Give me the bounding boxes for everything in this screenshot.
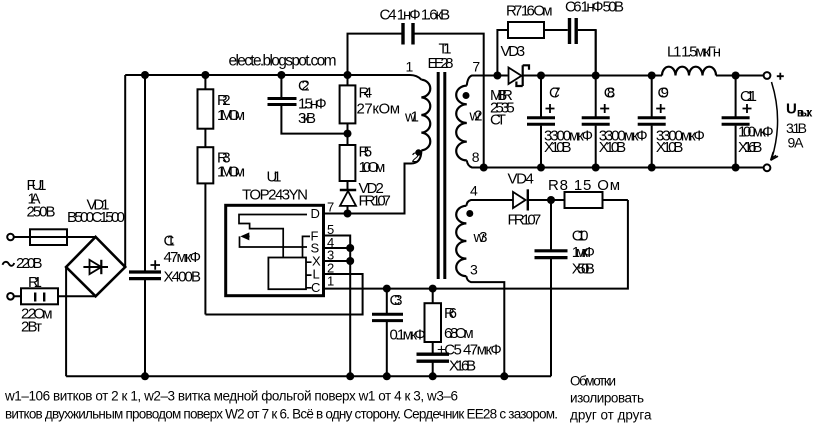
svg-text:2Вт: 2Вт [21, 319, 42, 336]
wire w2 pin8 hook and secondary bottom rail [467, 160, 764, 167]
svg-text:3: 3 [470, 262, 478, 278]
junction C4 pin8 rail [480, 164, 488, 172]
wire input fuse to bridge top corner [14, 236, 96, 238]
resistor R7 [508, 22, 544, 38]
wire R2 R3 chain and L-loop left vertical [204, 75, 206, 315]
wire C10 branch [550, 200, 552, 376]
capacitor C9 electrolytic [638, 104, 666, 124]
resistor R6 [425, 303, 442, 342]
wire primary top rail [125, 75, 421, 80]
junction C2 top rail [277, 71, 285, 79]
junction C1 top rail [141, 71, 149, 79]
svg-text:X10В: X10В [656, 139, 684, 156]
svg-text:витков двухжильным проводом по: витков двухжильным проводом поверх W2 от… [5, 407, 558, 422]
junction R4 C4 top rail [344, 71, 352, 79]
wire bridge right corner up to top rail (DC plus) [124, 75, 126, 267]
capacitor C6 [570, 18, 577, 44]
svg-text:7: 7 [472, 59, 480, 75]
svg-text:X400В: X400В [164, 269, 202, 286]
junction S pin [346, 244, 354, 252]
svg-text:U1: U1 [267, 169, 282, 186]
svg-text:C4 1нФ 1.6кВ: C4 1нФ 1.6кВ [380, 7, 451, 24]
svg-text:100мкФ: 100мкФ [738, 124, 774, 141]
svg-text:X10В: X10В [544, 139, 572, 156]
svg-text:w1–106 витков от 2 к 1, w2–3 в: w1–106 витков от 2 к 1, w2–3 витка медно… [4, 389, 458, 404]
junction C7 bottom [537, 164, 545, 172]
svg-text:VD3: VD3 [501, 43, 526, 60]
resistor R3 [198, 147, 214, 183]
junction C3 bottom rail [383, 372, 391, 380]
resistor R8 [565, 192, 603, 208]
svg-text:C6 1нФ 50В: C6 1нФ 50В [565, 0, 624, 16]
junction source vertical bottom rail [346, 372, 354, 380]
svg-text:R8 15 Ом: R8 15 Ом [548, 177, 620, 194]
wire R7 C6 snubber [497, 30, 595, 76]
svg-text:8: 8 [472, 149, 480, 165]
input terminal bottom [7, 293, 14, 300]
wire R4 R5 VD2 clamp chain [347, 75, 349, 214]
junction VD2 D node [344, 210, 352, 218]
U1 internal drain line [239, 215, 307, 258]
svg-text:X16В: X16В [738, 139, 762, 156]
wire primary bottom rail [66, 375, 551, 377]
resistor R2 [198, 89, 214, 128]
winding w3 [456, 206, 466, 276]
wire C11 stem [735, 76, 737, 168]
winding w2 polarity dot [463, 92, 470, 99]
svg-text:1: 1 [327, 274, 334, 289]
svg-text:D: D [311, 206, 320, 221]
svg-text:220В: 220В [16, 255, 43, 272]
wire R8 right end [603, 199, 628, 201]
wire U1 L pin loop to R3 bottom [205, 274, 362, 315]
junction C7 top [537, 72, 545, 80]
diode VD3 schottky MBR2535CT [509, 65, 530, 86]
svg-text:10 Ом: 10 Ом [359, 159, 386, 176]
wire C1 branch vertical [144, 75, 146, 376]
wire C8 stem [595, 30, 597, 168]
U1 internal F line [303, 236, 311, 257]
junction R4 R5 C2 node [344, 130, 352, 138]
diode VD2 [340, 190, 356, 206]
diode VD4 FR107 [513, 189, 528, 210]
svg-text:1МОм: 1МОм [217, 107, 245, 124]
svg-text:R7 16 Ом: R7 16 Ом [506, 3, 553, 20]
wire input R1 to bridge bottom corner [14, 295, 96, 297]
capacitor C5 electrolytic [417, 354, 450, 361]
wire bridge left corner down to bottom rail (DC minus) [65, 267, 67, 376]
svg-text:4: 4 [470, 183, 478, 199]
winding w2 [456, 86, 467, 161]
output terminal plus [764, 72, 771, 79]
svg-text:electe.blogspot.com: electe.blogspot.com [229, 53, 337, 70]
svg-text:250В: 250В [27, 204, 56, 221]
capacitor C1 electrolytic [129, 260, 161, 278]
svg-text:C: C [311, 280, 320, 295]
svg-text:L1 1.5мкГн: L1 1.5мкГн [667, 44, 721, 61]
svg-text:C3: C3 [390, 292, 403, 309]
svg-text:C10: C10 [572, 228, 589, 245]
output terminal minus [764, 164, 771, 171]
svg-text:6.8Ом: 6.8Ом [444, 325, 474, 342]
capacitor C4 [403, 23, 413, 45]
wire C9 stem [651, 76, 653, 168]
svg-text:9А: 9А [788, 135, 805, 151]
wire VD4 cathode to R8 [528, 199, 565, 201]
svg-text:X10В: X10В [599, 139, 627, 156]
junction w3 return bottom rail [500, 372, 508, 380]
wire w3 pin3 return [466, 276, 504, 376]
svg-text:w2: w2 [469, 108, 483, 125]
output plus sign [777, 73, 784, 80]
svg-text:X50В: X50В [572, 261, 595, 278]
junction R6 top control rail [429, 285, 437, 293]
wire w2 pin7 hook and secondary rail to VD3 anode [467, 76, 508, 86]
svg-text:EE28: EE28 [428, 55, 454, 72]
winding w1 [421, 80, 430, 151]
junction C3 top control rail [383, 285, 391, 293]
svg-text:FR107: FR107 [359, 193, 391, 210]
svg-text:47мкФ: 47мкФ [164, 249, 202, 266]
wire C3 branch [386, 289, 388, 377]
wire R6 C5 branch [432, 289, 434, 377]
svg-text:изолировать: изолировать [570, 391, 644, 406]
svg-text:C2: C2 [298, 78, 310, 95]
AC tilde symbol [3, 262, 15, 266]
svg-text:C1: C1 [164, 233, 176, 250]
wire C7 stem [540, 76, 542, 168]
wire U1 D pin to w1 pin2 [324, 150, 422, 213]
junction VD4 R8 C10 node [547, 196, 555, 204]
svg-text:CT: CT [490, 112, 506, 129]
IC U1 TOP243YN body [226, 205, 324, 295]
U1 internal controller box [268, 258, 306, 290]
junction C11 bottom [732, 164, 740, 172]
junction C9 top [648, 72, 656, 80]
capacitor C10 [535, 251, 568, 258]
resistor R4 [340, 85, 356, 123]
wire w3 pin4 to VD4 [466, 200, 513, 206]
svg-text:2: 2 [412, 149, 420, 165]
svg-text:R5: R5 [359, 144, 373, 161]
svg-text:R6: R6 [444, 305, 457, 322]
junction VD3 anode node [493, 72, 501, 80]
junction C1 bottom rail [141, 372, 149, 380]
svg-text:w1: w1 [404, 109, 419, 126]
svg-text:C11: C11 [740, 88, 757, 105]
junction C8 snubber top [592, 72, 600, 80]
svg-text:C7: C7 [549, 85, 561, 102]
wire U1 C pin control rail to R8 return [324, 200, 628, 289]
inductor L1 [662, 67, 716, 76]
svg-text:1: 1 [406, 59, 414, 75]
capacitor C8 electrolytic [582, 104, 610, 124]
input terminal top [7, 234, 14, 241]
resistor R1 [21, 288, 58, 304]
resistor R5 [340, 145, 356, 181]
svg-text:R4: R4 [359, 85, 373, 102]
transformer T1 core [438, 72, 445, 279]
junction R2 top rail [201, 71, 209, 79]
svg-text:+C5 47мкФ: +C5 47мкФ [437, 342, 502, 359]
wire VD3 cathode to output plus terminal [523, 75, 764, 77]
capacitor C2 [268, 99, 297, 105]
svg-text:1мкФ: 1мкФ [572, 244, 595, 261]
bridge rectifier VD1 [66, 237, 125, 296]
capacitor C11 electrolytic [722, 104, 752, 124]
capacitor C7 electrolytic [527, 104, 555, 124]
junction C5 bottom rail [429, 372, 437, 380]
wire C4 branch over transformer [348, 34, 484, 168]
svg-text:VD4: VD4 [508, 171, 534, 188]
svg-text:друг от друга: друг от друга [570, 408, 652, 423]
svg-text:R1: R1 [28, 274, 42, 291]
fuse FU1 [30, 229, 67, 245]
winding w3 polarity dot [466, 210, 473, 217]
svg-text:Обмотки: Обмотки [570, 374, 616, 389]
svg-text:FR107: FR107 [508, 212, 542, 229]
output voltage arrow [771, 82, 778, 160]
winding w1 polarity dot [415, 149, 421, 155]
svg-text:0.1мкФ: 0.1мкФ [390, 327, 426, 344]
U1 internal mosfet arrow [240, 232, 308, 247]
capacitor C3 [372, 314, 403, 320]
svg-text:B500C1500: B500C1500 [67, 209, 125, 226]
svg-text:TOP243YN: TOP243YN [242, 187, 308, 204]
wire U1 F S X pins tied to source vertical [324, 236, 351, 377]
wire C2 branch [281, 75, 347, 134]
svg-text:w3: w3 [473, 229, 488, 246]
svg-text:3кВ: 3кВ [298, 110, 316, 127]
U1 internal X L C stubs [306, 262, 312, 288]
svg-text:C9: C9 [658, 85, 670, 102]
svg-text:27кОм: 27кОм [357, 101, 401, 118]
svg-text:C8: C8 [604, 85, 616, 102]
junction C9 bottom [648, 164, 656, 172]
svg-text:X16В: X16В [449, 358, 476, 375]
svg-text:7: 7 [327, 200, 334, 215]
junction C11 top [732, 72, 740, 80]
svg-text:1МОм: 1МОм [217, 164, 245, 181]
junction C8 bottom [592, 164, 600, 172]
junction X pin [346, 257, 354, 265]
